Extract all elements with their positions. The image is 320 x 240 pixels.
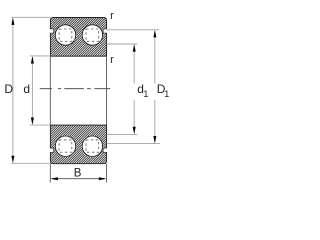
svg-text:r: r (110, 10, 114, 22)
d bore extension line top (30, 55, 51, 57)
ball cutout left (lower) (55, 135, 77, 157)
left face notch (upper) (50, 29, 54, 33)
D1 arrow down (153, 136, 156, 144)
left face extension line (49, 56, 51, 125)
D1 dimension line lower segment (154, 100, 156, 142)
cage dashes right ball (upper) (86, 29, 99, 41)
ball cutout left (upper) (55, 24, 77, 46)
D1 extension line bottom (107, 143, 161, 145)
svg-text:r: r (110, 54, 114, 66)
svg-text:1: 1 (164, 89, 169, 99)
svg-text:D: D (4, 82, 13, 96)
d bore extension line bottom (30, 124, 51, 126)
D1 extension line top (107, 29, 160, 31)
ball left outline (upper) (55, 25, 76, 46)
d1 extension line top (107, 43, 138, 45)
svg-text:B: B (74, 168, 82, 180)
right face notch (lower) (103, 148, 107, 152)
B extension line left (49, 164, 51, 183)
ball right outline (upper) (82, 25, 103, 46)
D extension line bottom (11, 162, 51, 164)
ball cutout right (upper) (82, 24, 104, 46)
ring hatch (upper) (12, 18, 145, 57)
svg-text:d: d (23, 82, 30, 96)
cage dashes right ball (lower) (86, 140, 99, 152)
B arrow left (50, 177, 58, 180)
ball cutout right (lower) (82, 135, 104, 157)
d dimension line (31, 58, 33, 124)
B arrow right (99, 177, 107, 180)
d arrow down (31, 118, 34, 126)
centerline (axis) (40, 88, 111, 90)
d1 dimension line upper segment (133, 46, 135, 84)
svg-text:1: 1 (143, 89, 148, 99)
D1 dimension line upper segment (154, 32, 156, 84)
D arrow up (11, 17, 14, 25)
d arrow up (31, 56, 34, 64)
D1 arrow up (153, 30, 156, 38)
B extension line right (105, 164, 107, 183)
d1 arrow up (133, 44, 136, 52)
ring hatch (lower) (12, 125, 145, 164)
left face notch (lower) (50, 148, 54, 152)
D dimension line (12, 19, 14, 162)
d1 extension line bottom (107, 133, 138, 135)
B dimension line (52, 178, 105, 180)
right face extension line (105, 56, 107, 125)
d1 dimension line lower segment (133, 100, 135, 133)
D extension line top (11, 16, 50, 18)
outer+inner ring block (lower) (50, 125, 106, 164)
right face notch (upper) (103, 29, 107, 33)
D arrow down (11, 156, 14, 164)
ball left outline (lower) (55, 136, 76, 157)
d1 arrow down (133, 127, 136, 135)
cage dashes left ball (upper) (59, 29, 72, 41)
outer+inner ring block (upper) (50, 18, 106, 57)
ball right outline (lower) (82, 136, 103, 157)
cage dashes left ball (lower) (59, 140, 72, 152)
